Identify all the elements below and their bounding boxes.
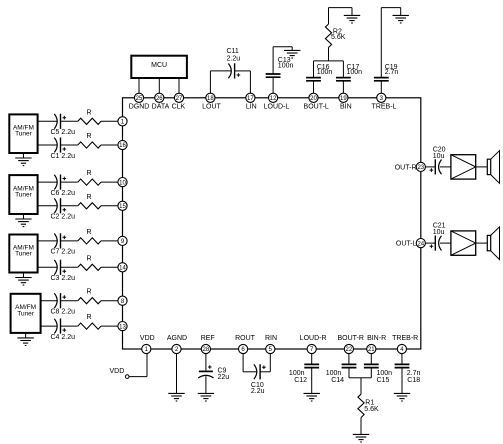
svg-text:ROUT: ROUT (235, 335, 256, 342)
svg-text:Tuner: Tuner (15, 131, 33, 138)
svg-text:16: 16 (119, 143, 126, 149)
svg-text:2.2u: 2.2u (227, 56, 241, 63)
svg-text:12: 12 (270, 96, 277, 102)
svg-text:RIN: RIN (265, 335, 277, 342)
svg-text:VDD: VDD (110, 368, 125, 375)
svg-text:10u: 10u (433, 229, 445, 236)
svg-text:22u: 22u (218, 374, 230, 381)
svg-text:LOUD-R: LOUD-R (300, 335, 327, 342)
svg-text:15: 15 (119, 204, 126, 210)
svg-text:Tuner: Tuner (17, 310, 35, 317)
svg-text:R: R (86, 229, 91, 236)
svg-text:REF: REF (201, 335, 215, 342)
svg-text:25: 25 (136, 96, 143, 102)
svg-text:DATA: DATA (152, 103, 170, 110)
svg-text:C14: C14 (331, 377, 344, 384)
svg-text:LOUD-L: LOUD-L (264, 103, 290, 110)
svg-text:26: 26 (156, 96, 163, 102)
svg-text:DGND: DGND (129, 103, 150, 110)
svg-text:27: 27 (176, 96, 183, 102)
svg-text:C12: C12 (294, 377, 307, 384)
svg-text:BOUT-L: BOUT-L (304, 103, 329, 110)
svg-text:C15: C15 (377, 377, 390, 384)
svg-text:23: 23 (417, 165, 424, 171)
svg-text:LIN: LIN (246, 103, 257, 110)
svg-text:TREB-R: TREB-R (392, 335, 418, 342)
svg-text:OUT-L: OUT-L (396, 241, 417, 248)
svg-text:AGND: AGND (167, 335, 187, 342)
svg-text:BOUT-R: BOUT-R (337, 335, 363, 342)
svg-text:BIN: BIN (340, 103, 352, 110)
svg-text:C6 2.2u: C6 2.2u (51, 190, 76, 197)
svg-text:C8 2.2u: C8 2.2u (51, 309, 76, 316)
svg-text:10u: 10u (433, 153, 445, 160)
svg-text:R: R (86, 255, 91, 262)
svg-text:C2 2.2u: C2 2.2u (51, 214, 76, 221)
svg-text:13: 13 (119, 324, 126, 330)
svg-text:C4 2.2u: C4 2.2u (51, 334, 76, 341)
svg-text:C5 2.2u: C5 2.2u (51, 129, 76, 136)
svg-text:2.2u: 2.2u (251, 388, 265, 395)
svg-text:19: 19 (340, 96, 347, 102)
svg-text:Tuner: Tuner (15, 192, 33, 199)
svg-text:17: 17 (247, 96, 254, 102)
svg-text:R: R (86, 314, 91, 321)
svg-text:C7 2.2u: C7 2.2u (51, 249, 76, 256)
svg-text:R: R (86, 289, 91, 296)
svg-text:28: 28 (203, 347, 210, 353)
svg-text:R: R (86, 133, 91, 140)
svg-text:100n: 100n (317, 69, 333, 76)
svg-text:C3 2.2u: C3 2.2u (51, 275, 76, 282)
svg-text:5.6K: 5.6K (364, 406, 379, 413)
svg-text:C1 2.2u: C1 2.2u (51, 153, 76, 160)
svg-text:22: 22 (346, 347, 353, 353)
svg-text:TREB-L: TREB-L (372, 103, 397, 110)
svg-text:100n: 100n (278, 63, 294, 70)
svg-text:14: 14 (119, 266, 126, 272)
svg-text:MCU: MCU (151, 62, 167, 69)
svg-text:VDD: VDD (140, 335, 155, 342)
svg-text:OUT-R: OUT-R (395, 164, 417, 171)
svg-text:C11: C11 (227, 48, 239, 55)
svg-text:21: 21 (368, 347, 375, 353)
svg-text:100n: 100n (347, 69, 363, 76)
svg-text:2.7n: 2.7n (385, 69, 399, 76)
svg-text:R: R (86, 194, 91, 201)
svg-text:R: R (86, 109, 91, 116)
svg-text:20: 20 (310, 96, 317, 102)
svg-text:5.6K: 5.6K (331, 34, 346, 41)
svg-text:R: R (86, 170, 91, 177)
svg-text:CLK: CLK (172, 103, 186, 110)
svg-text:C18: C18 (407, 377, 420, 384)
svg-text:BIN-R: BIN-R (367, 335, 386, 342)
svg-text:24: 24 (417, 241, 424, 247)
svg-text:LOUT: LOUT (202, 103, 221, 110)
svg-text:Tuner: Tuner (15, 251, 33, 258)
svg-text:10: 10 (119, 180, 126, 186)
svg-text:18: 18 (207, 96, 214, 102)
